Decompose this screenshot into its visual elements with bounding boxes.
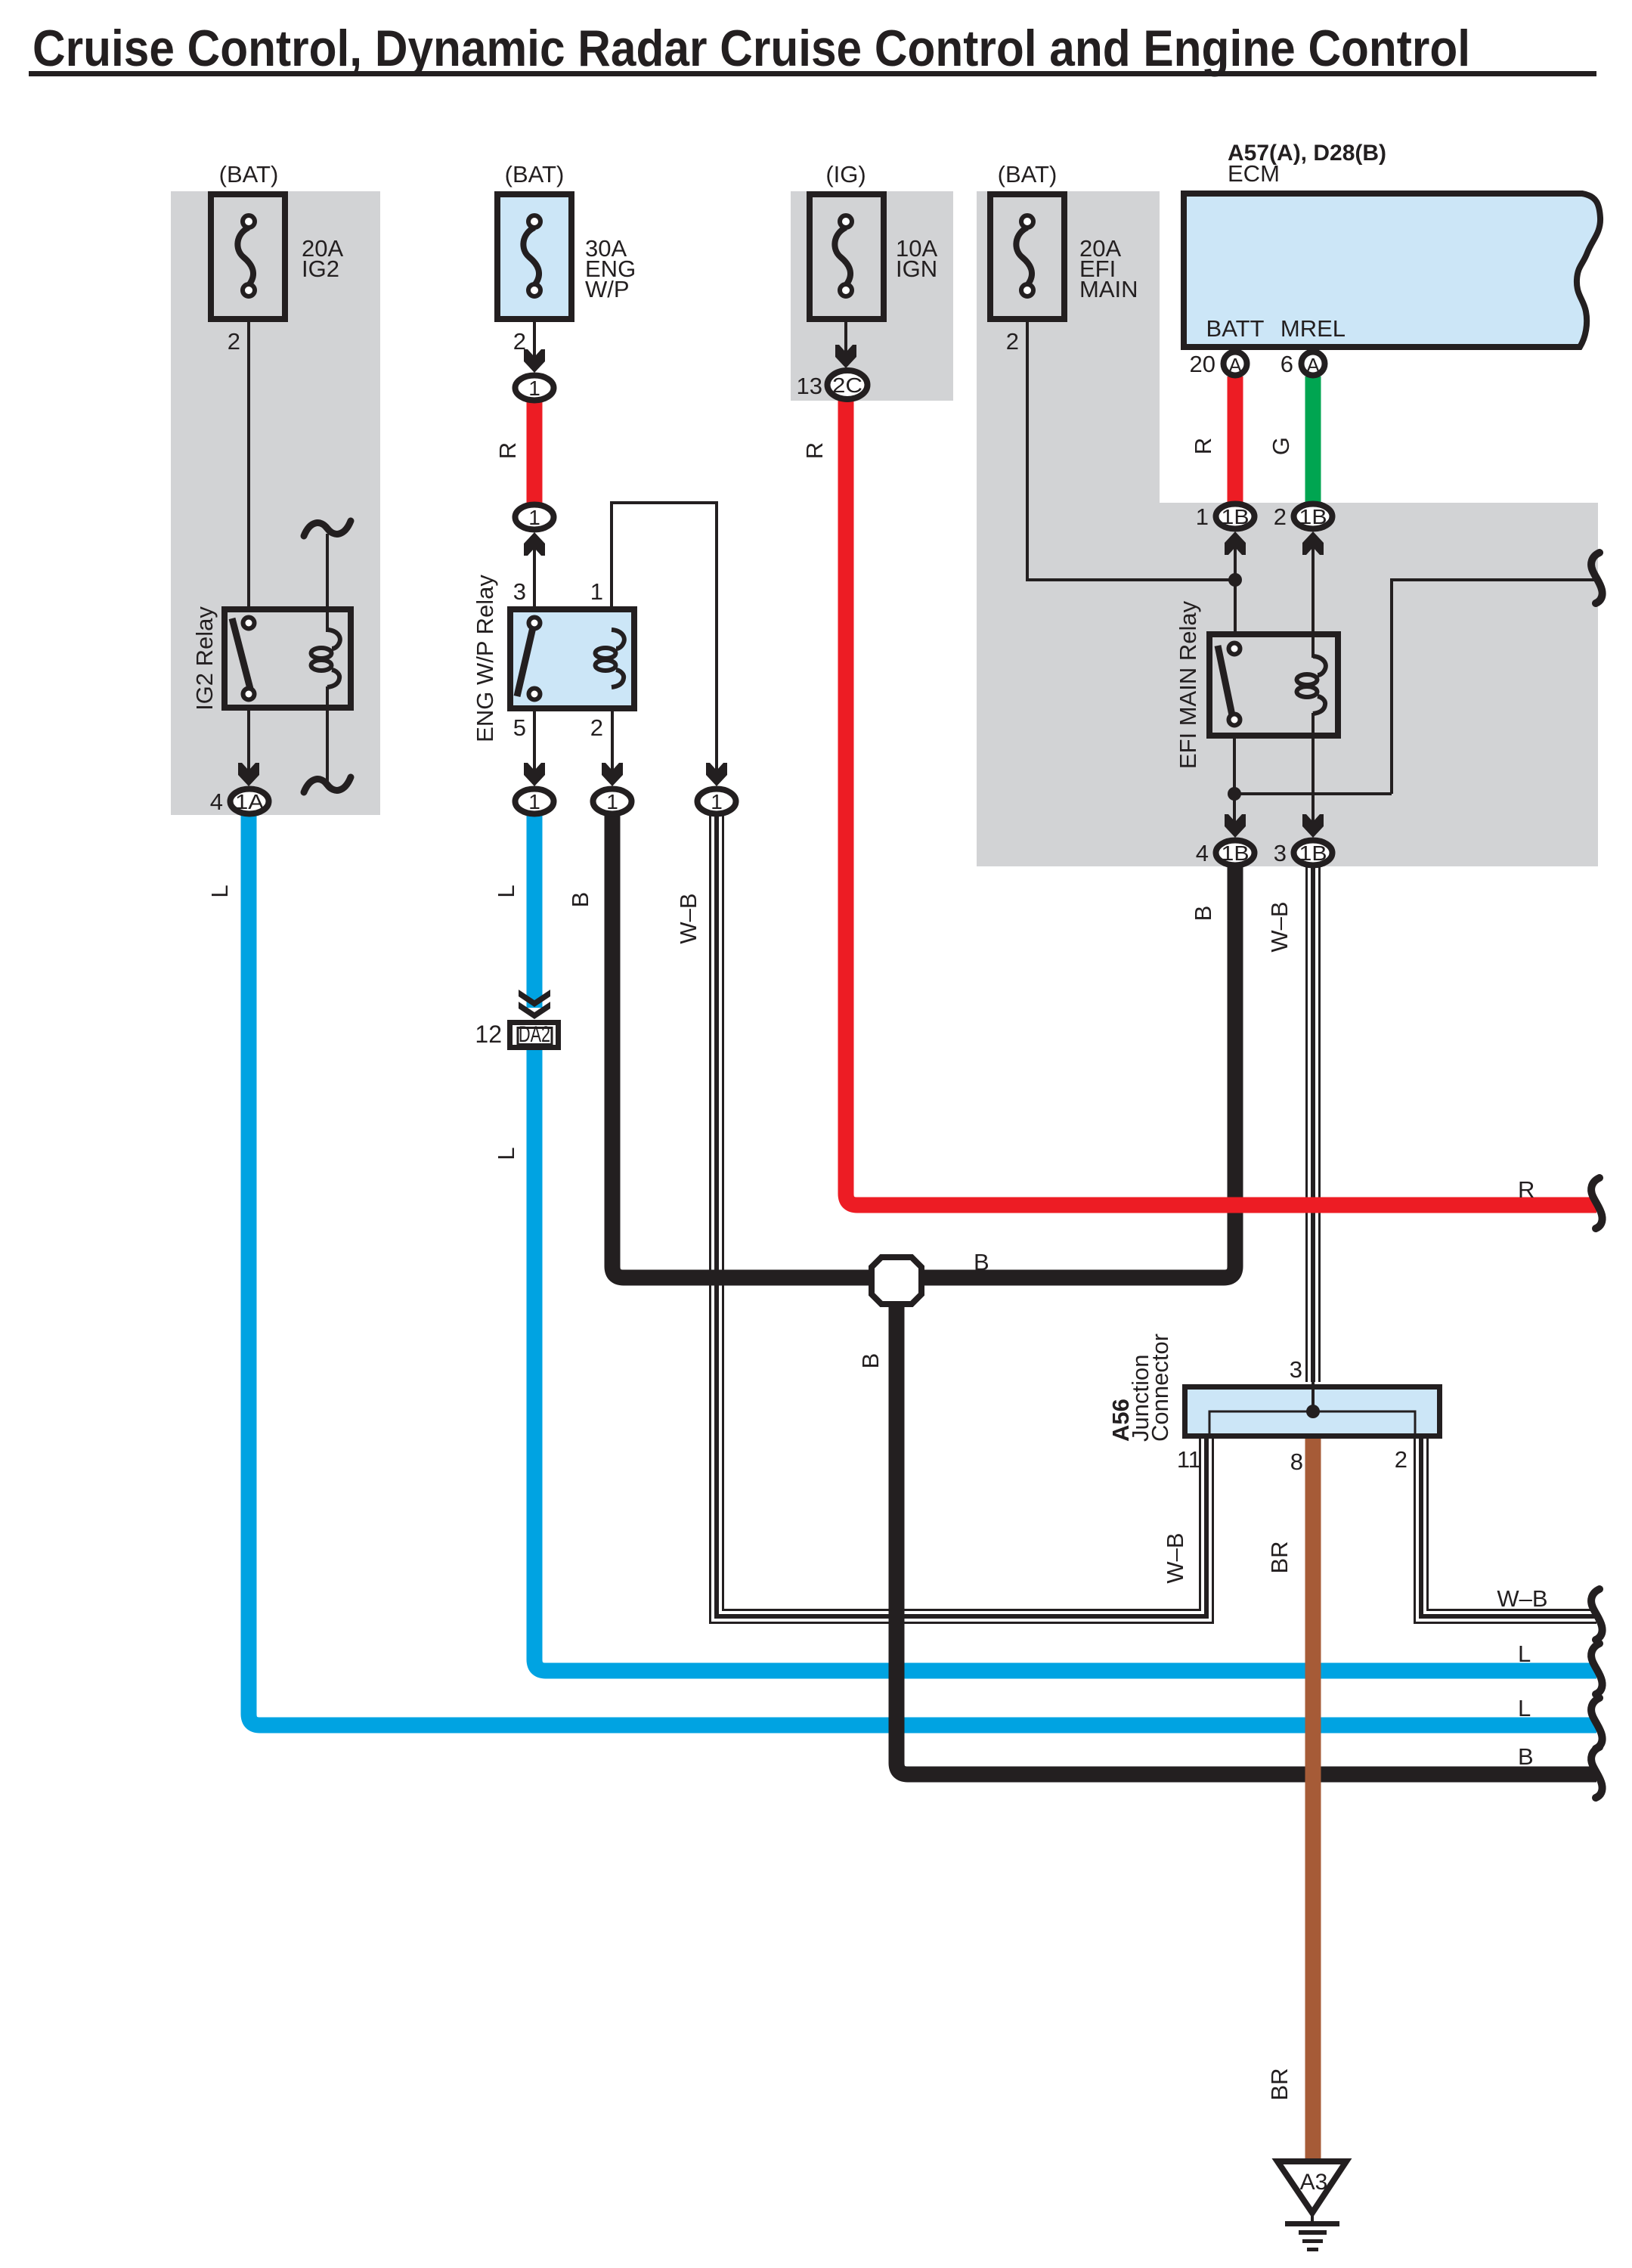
svg-text:L: L <box>493 1147 519 1160</box>
wire ECM BATT 1B to EFI MAIN relay <box>1234 541 1237 634</box>
svg-text:1B: 1B <box>1299 841 1327 865</box>
connector 3 1B <box>1294 841 1333 866</box>
gray panel behind IG2 fuse and relay <box>171 191 380 815</box>
connector 1 upper <box>516 376 554 401</box>
arrow up below 2 1B <box>1302 531 1324 555</box>
ENG W/P Relay box <box>510 609 634 708</box>
wire R red ECM BATT <box>1228 376 1243 503</box>
svg-text:L: L <box>1518 1641 1531 1667</box>
IG2 relay switch <box>232 618 250 689</box>
IG2 Relay box <box>225 609 351 708</box>
svg-text:1B: 1B <box>1222 505 1250 528</box>
svg-text:R: R <box>494 442 521 459</box>
tilde wire-break below IG2 coil <box>304 777 351 792</box>
wire W-B from ENG W/P connector to A56 pin 11 <box>717 801 1206 1616</box>
svg-text:R: R <box>1190 438 1216 454</box>
svg-text:2C: 2C <box>832 373 862 397</box>
tilde wire-break W-B right <box>1591 1589 1603 1640</box>
svg-text:12: 12 <box>475 1021 502 1048</box>
svg-text:IG2 Relay: IG2 Relay <box>191 606 218 711</box>
wire IG2 coil branch upper <box>326 534 329 632</box>
svg-text:11: 11 <box>1177 1446 1201 1473</box>
ground stem <box>1311 2213 1314 2223</box>
fuse 20A EFI MAIN box <box>990 194 1064 319</box>
title underline <box>29 71 1596 76</box>
connector 1 below pin 5 <box>516 789 554 814</box>
svg-text:R: R <box>1518 1176 1534 1203</box>
svg-text:B: B <box>1518 1743 1534 1770</box>
svg-text:W–B: W–B <box>1497 1585 1547 1612</box>
svg-text:B: B <box>974 1249 989 1275</box>
svg-text:5: 5 <box>513 714 526 741</box>
wire L blue from DA2 to wire-break <box>534 1050 1596 1671</box>
wire ENG W/P relay pin 5 down <box>533 711 536 773</box>
wire ECM MREL 1B to EFI MAIN relay coil <box>1311 541 1315 658</box>
ground bars <box>1285 2221 1339 2226</box>
svg-text:4: 4 <box>210 789 223 815</box>
svg-text:6: 6 <box>1281 351 1293 377</box>
svg-text:8: 8 <box>1290 1448 1303 1475</box>
ECM box <box>1184 194 1600 347</box>
connector DA2 box <box>510 1023 559 1048</box>
tilde wire-break R right <box>1591 1178 1603 1228</box>
wire W-B from EFI MAIN 3 1B to A56 pin 3 <box>1305 853 1321 1382</box>
wire EFI MAIN relay pin 4 down <box>1233 739 1236 824</box>
svg-text:2: 2 <box>590 714 603 741</box>
wire junction to right branch <box>1234 792 1392 795</box>
ENG W/P relay coil <box>612 630 624 649</box>
wire B from junction down to wire-break <box>897 1300 1596 1774</box>
svg-text:(BAT): (BAT) <box>505 161 565 187</box>
svg-text:13: 13 <box>797 373 822 399</box>
wire W-B from A56 pin 2 to wire-break <box>1421 1438 1596 1616</box>
junction node below EFI MAIN relay <box>1228 787 1241 801</box>
svg-text:L: L <box>206 885 233 897</box>
connector 1 below pin 2 <box>593 789 632 814</box>
IG2 relay coil <box>327 630 340 649</box>
svg-text:W–B: W–B <box>1162 1532 1188 1583</box>
svg-text:IGN: IGN <box>896 256 937 282</box>
svg-text:W/P: W/P <box>585 276 630 302</box>
svg-text:B: B <box>1190 906 1216 922</box>
A56 inner bus line <box>1209 1411 1415 1436</box>
wire inside A56 <box>1311 1379 1315 1411</box>
svg-text:1: 1 <box>528 506 540 529</box>
svg-text:1A: 1A <box>235 790 264 813</box>
connector 4 1A <box>231 789 269 814</box>
wire IG2 relay to connector 1A <box>247 711 250 773</box>
svg-text:2: 2 <box>1274 503 1287 530</box>
wire IGN fuse to connector 2C <box>844 319 847 354</box>
wire EFI MAIN fuse down and over to relay column <box>1027 319 1235 580</box>
arrow into ENG W/P top connector <box>524 349 545 373</box>
connector 1 second <box>516 505 554 530</box>
gray panel column behind EFI MAIN fuse <box>977 191 1160 503</box>
wire IG2 coil branch lower <box>326 686 329 785</box>
svg-text:1B: 1B <box>1299 505 1327 528</box>
svg-text:A3: A3 <box>1300 2170 1328 2195</box>
arrow up below connector <box>524 532 545 556</box>
svg-text:A: A <box>1228 354 1242 376</box>
svg-text:W–B: W–B <box>1266 901 1293 952</box>
svg-text:BR: BR <box>1266 1541 1293 1573</box>
EFI MAIN relay coil <box>1313 656 1326 675</box>
junction connector A56 box <box>1185 1387 1440 1436</box>
svg-text:20: 20 <box>1190 351 1215 377</box>
arrow into connector below pin 5 <box>524 763 545 786</box>
svg-text:2: 2 <box>1395 1446 1407 1473</box>
svg-text:Connector: Connector <box>1147 1334 1173 1442</box>
svg-text:1: 1 <box>528 790 540 813</box>
junction node at BATT wire <box>1228 573 1242 587</box>
svg-text:1: 1 <box>1196 503 1209 530</box>
arrow up below 1 1B <box>1225 531 1246 555</box>
svg-text:2: 2 <box>513 328 526 355</box>
junction node A56 <box>1306 1405 1320 1418</box>
junction octagon <box>872 1257 921 1304</box>
svg-text:1: 1 <box>711 790 723 813</box>
svg-text:B: B <box>857 1353 884 1369</box>
fuse 20A IG2 element <box>237 228 253 284</box>
wire B from EFI MAIN 4 1B to junction <box>916 853 1235 1278</box>
tilde wire-break right branch <box>1591 553 1603 603</box>
gray panel behind IGN fuse <box>791 191 953 401</box>
EFI MAIN relay switch <box>1218 646 1232 715</box>
connector DA2 chevrons <box>519 990 550 1007</box>
wire B from ENG W/P pin 2 to junction <box>612 801 877 1278</box>
wire ENG W/P coil pin 1 up and over <box>612 503 717 773</box>
tilde wire-break L2 right <box>1591 1698 1603 1749</box>
svg-text:MAIN: MAIN <box>1079 276 1138 302</box>
ECM pin 20 A circle <box>1224 352 1247 376</box>
svg-text:EFI MAIN Relay: EFI MAIN Relay <box>1175 600 1201 769</box>
svg-text:1B: 1B <box>1222 841 1250 865</box>
wire BR brown to ground <box>1305 1411 1321 2161</box>
wire L blue from ENG W/P pin 5 upper <box>527 801 543 1008</box>
svg-text:IG2: IG2 <box>302 256 339 282</box>
wire G green ECM MREL <box>1305 376 1321 503</box>
connector 1 third <box>698 789 736 814</box>
svg-text:2: 2 <box>1006 328 1019 355</box>
svg-text:2: 2 <box>228 328 240 355</box>
svg-text:4: 4 <box>1196 840 1209 866</box>
svg-text:3: 3 <box>513 578 526 605</box>
fuse 20A IG2 box <box>211 194 285 319</box>
svg-text:G: G <box>1268 437 1294 455</box>
wire R red from IGN 2C to wire-break <box>846 385 1596 1205</box>
connector 1 1B <box>1216 504 1255 529</box>
svg-text:L: L <box>1518 1695 1531 1721</box>
arrow into connector below pin 2 <box>602 763 623 786</box>
svg-text:BR: BR <box>1266 2068 1293 2100</box>
wire right branch over to wire-break <box>1392 580 1596 794</box>
svg-text:(BAT): (BAT) <box>998 161 1058 187</box>
wire IG2 fuse to relay <box>247 319 250 609</box>
svg-text:A: A <box>1306 354 1320 376</box>
ECM pin 6 A circle <box>1302 352 1325 376</box>
wire ENG W/P fuse to connector <box>533 319 536 359</box>
tilde wire-break B right <box>1591 1747 1603 1798</box>
EFI MAIN Relay box <box>1209 634 1338 736</box>
svg-text:1: 1 <box>590 578 603 605</box>
arrow into IGN 2C <box>835 345 856 368</box>
fuse 20A EFI MAIN element <box>1016 228 1032 284</box>
svg-text:Cruise Control, Dynamic Radar: Cruise Control, Dynamic Radar Cruise Con… <box>33 20 1470 77</box>
fuse 10A IGN box <box>810 194 884 319</box>
connector 4 1B <box>1216 841 1255 866</box>
fuse 30A ENG W/P box <box>497 194 571 319</box>
fuse 10A IGN element <box>835 228 850 284</box>
arrow into IG2 1A <box>238 763 259 786</box>
wire R red fuse to relay connector <box>527 388 543 503</box>
svg-text:3: 3 <box>1290 1356 1302 1383</box>
svg-text:(IG): (IG) <box>825 161 866 187</box>
wire ENG W/P coil lower <box>610 686 613 711</box>
arrow into 4 1B <box>1225 814 1246 838</box>
svg-text:MREL: MREL <box>1281 315 1346 342</box>
wire ENG W/P relay pin 2 down <box>611 711 614 773</box>
tilde wire-break L1 right <box>1591 1644 1603 1694</box>
ground A3 triangle <box>1277 2161 1346 2213</box>
fuse 30A ENG W/P element <box>523 228 539 284</box>
svg-text:BATT: BATT <box>1206 315 1265 342</box>
wire connector to ENG W/P relay pin 3 <box>533 541 536 609</box>
arrow into 3 1B <box>1302 814 1324 838</box>
ENG W/P relay switch <box>517 627 533 696</box>
gray panel main behind EFI MAIN relay <box>977 503 1598 866</box>
svg-text:(BAT): (BAT) <box>219 161 279 187</box>
svg-text:W–B: W–B <box>675 893 701 943</box>
svg-text:1: 1 <box>528 376 540 400</box>
svg-text:1: 1 <box>606 790 618 813</box>
connector 2 1B <box>1294 504 1333 529</box>
svg-text:L: L <box>493 885 519 897</box>
svg-text:B: B <box>567 892 593 908</box>
svg-text:R: R <box>801 442 828 459</box>
connector 13 2C <box>828 370 868 399</box>
svg-text:ENG W/P Relay: ENG W/P Relay <box>472 575 498 742</box>
wire L blue from IG2 1A to wire-break <box>249 801 1596 1725</box>
svg-text:3: 3 <box>1274 840 1287 866</box>
arrow into third connector <box>706 763 727 786</box>
tilde wire-break above IG2 coil <box>304 521 351 536</box>
svg-text:DA2: DA2 <box>519 1022 550 1047</box>
svg-text:ECM: ECM <box>1228 160 1280 187</box>
wire EFI MAIN relay coil down <box>1311 713 1315 824</box>
